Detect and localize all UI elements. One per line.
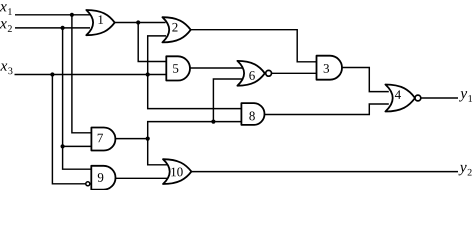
gate 9 input inversion bubble <box>86 182 90 186</box>
nor-gate 4 bubble <box>415 95 421 101</box>
and-gate 3 <box>317 56 342 80</box>
wire x3 net vertical: gate 2 bottom input down to gate 8 top input <box>148 36 242 109</box>
wire x1 branch vertical to gate 7 top input <box>72 15 92 133</box>
wire x2 branch to gate 7 bottom input <box>63 145 92 147</box>
label x1 <box>0 4 12 15</box>
wire gate 9 output to gate 10 bottom input <box>115 177 171 179</box>
wire x3 input line <box>15 74 167 76</box>
junction gate1 output <box>136 20 140 24</box>
wire gate 3 output to gate 4 top input <box>342 68 389 92</box>
wire x3 branch vertical to gate 9 bubble input <box>52 75 85 184</box>
or-gate 1 <box>86 10 114 35</box>
gate label 4 <box>395 90 401 99</box>
gate label 1 <box>98 15 103 24</box>
junction x2 vertical <box>61 144 65 148</box>
junction x3 net <box>146 72 150 76</box>
wire gate 5 output to gate 6 top input <box>190 67 243 69</box>
wire gate 7 net branch up to gate 6 bottom input <box>213 79 242 122</box>
wire gate 1 output branch down to gate 5 top input <box>138 23 166 62</box>
gate label 7 <box>98 134 103 143</box>
junction gate7 output <box>146 137 150 141</box>
and-gate 9 <box>91 166 115 190</box>
wire gate 2 output to gate 3 top input <box>191 30 317 62</box>
gate label 8 <box>249 112 255 121</box>
wire gate 7 net down to gate 10 top input <box>148 139 169 165</box>
gate label 5 <box>173 64 178 73</box>
wire gate 1 output to gate 2 top input <box>115 22 166 24</box>
wire gate 4 output to y1 <box>421 97 458 99</box>
junction on x2 <box>61 26 65 30</box>
gate label 6 <box>249 71 255 80</box>
nor-gate 6 <box>237 61 264 86</box>
or-gate 10 <box>163 159 191 184</box>
junction gate7 net <box>211 120 215 124</box>
label x3 <box>0 63 12 74</box>
gate label 3 <box>324 64 329 73</box>
wire gate 10 output to y2 <box>191 171 458 173</box>
or-gate 2 <box>162 17 190 42</box>
nor-gate 4 <box>385 85 415 112</box>
gate label 9 <box>98 173 104 182</box>
gate label 2 <box>172 23 177 32</box>
nor-gate 6 bubble <box>266 70 272 76</box>
wire x2 input line <box>15 27 90 29</box>
wire gate 7 net up and right to gate 8 bottom input <box>148 122 242 139</box>
gate label 10 <box>171 168 182 177</box>
junction on x1 <box>70 13 74 17</box>
label x2 <box>0 21 12 32</box>
and-gate 8 <box>241 103 264 125</box>
wire gate 7 output to junction <box>115 138 147 140</box>
and-gate 5 <box>166 56 190 80</box>
wire x2 branch vertical to gate 9 top input <box>63 28 92 169</box>
wire gate 8 output to gate 4 bottom input <box>265 104 389 115</box>
wire gate 6 output to gate 3 bottom input <box>272 72 317 74</box>
wire x1 input line <box>15 14 91 16</box>
label y1 <box>459 91 472 102</box>
and-gate 7 <box>91 128 115 151</box>
label y2 <box>459 165 472 176</box>
junction on x3 <box>50 72 54 76</box>
